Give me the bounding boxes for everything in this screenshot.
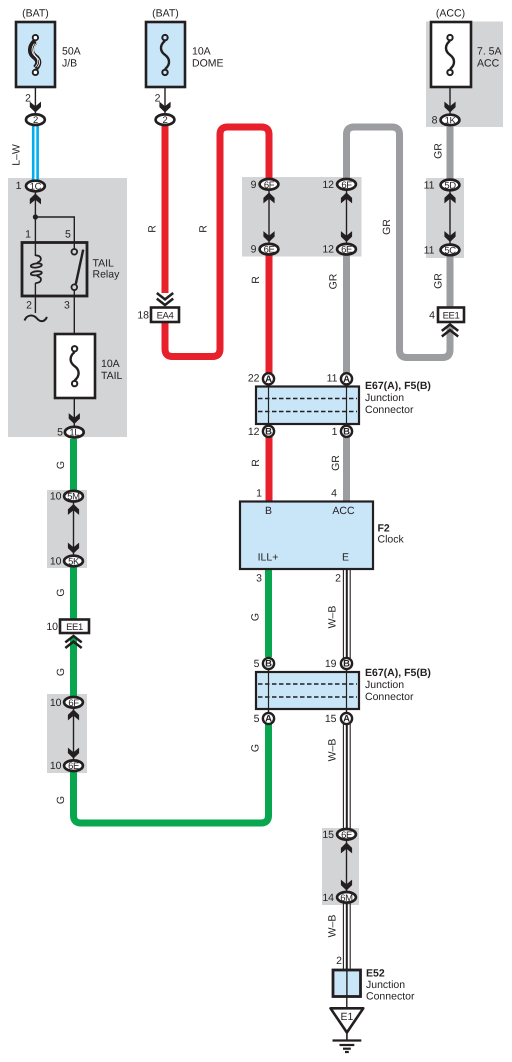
svg-text:GR: GR (433, 143, 445, 159)
svg-text:10: 10 (50, 491, 62, 503)
svg-text:ACC: ACC (332, 505, 355, 517)
svg-text:14: 14 (322, 892, 334, 904)
svg-text:1: 1 (256, 488, 262, 500)
svg-text:GR: GR (433, 273, 445, 289)
svg-text:1L: 1L (69, 428, 79, 439)
svg-text:5: 5 (254, 658, 260, 670)
svg-text:B: B (265, 659, 272, 670)
svg-text:5: 5 (57, 427, 63, 439)
svg-text:R: R (198, 225, 210, 233)
svg-text:E52: E52 (366, 968, 385, 980)
svg-text:W–B: W–B (327, 915, 339, 938)
svg-text:3: 3 (256, 572, 262, 584)
svg-text:2: 2 (335, 572, 341, 584)
svg-text:9: 9 (251, 244, 257, 256)
svg-text:GR: GR (381, 219, 393, 235)
svg-text:6M: 6M (340, 893, 353, 904)
svg-text:TAIL: TAIL (101, 370, 123, 382)
svg-text:18: 18 (137, 309, 149, 321)
svg-text:6E: 6E (68, 761, 79, 772)
svg-text:7. 5A: 7. 5A (477, 46, 502, 58)
svg-text:(BAT): (BAT) (152, 8, 179, 20)
svg-text:12: 12 (248, 426, 260, 438)
svg-text:5K: 5K (68, 557, 80, 568)
svg-text:4: 4 (331, 488, 337, 500)
svg-text:GR: GR (328, 273, 340, 289)
svg-text:1: 1 (16, 180, 22, 192)
svg-text:10: 10 (50, 556, 62, 568)
svg-text:A: A (265, 374, 272, 385)
svg-text:2: 2 (336, 955, 342, 967)
svg-text:A: A (343, 374, 350, 385)
svg-text:2: 2 (155, 93, 161, 105)
svg-text:Junction: Junction (365, 679, 404, 691)
svg-text:GR: GR (330, 455, 342, 471)
svg-text:E67(A), F5(B): E67(A), F5(B) (365, 667, 431, 679)
svg-text:B: B (265, 427, 272, 438)
svg-text:5D: 5D (444, 180, 456, 191)
svg-text:(BAT): (BAT) (22, 8, 49, 20)
svg-text:10: 10 (50, 697, 62, 709)
svg-text:10A: 10A (101, 358, 120, 370)
svg-text:1: 1 (332, 426, 338, 438)
svg-text:8: 8 (432, 115, 438, 127)
svg-text:11: 11 (327, 372, 338, 384)
svg-text:22: 22 (248, 372, 260, 384)
svg-text:R: R (250, 459, 262, 467)
svg-text:12: 12 (322, 244, 334, 256)
svg-text:Junction: Junction (366, 979, 405, 991)
svg-text:G: G (55, 668, 67, 676)
svg-text:L–W: L–W (11, 144, 23, 166)
svg-text:Connector: Connector (365, 404, 414, 416)
svg-text:6E: 6E (264, 245, 275, 256)
svg-text:5: 5 (254, 713, 260, 725)
svg-text:6E: 6E (341, 830, 352, 841)
svg-text:G: G (55, 796, 67, 804)
svg-text:2: 2 (163, 115, 168, 126)
svg-text:15: 15 (322, 829, 334, 841)
svg-text:50A: 50A (62, 46, 81, 58)
svg-text:2: 2 (33, 115, 38, 126)
svg-text:11: 11 (424, 244, 435, 256)
svg-text:6F: 6F (341, 180, 352, 191)
svg-text:2: 2 (25, 93, 31, 105)
svg-text:EA4: EA4 (157, 310, 174, 321)
svg-text:10: 10 (50, 760, 62, 772)
svg-text:J/B: J/B (62, 58, 77, 70)
svg-text:G: G (250, 744, 262, 752)
svg-text:R: R (250, 276, 262, 284)
svg-text:10A: 10A (192, 46, 211, 58)
svg-text:G: G (55, 588, 67, 596)
svg-text:19: 19 (325, 658, 337, 670)
svg-text:1: 1 (25, 229, 31, 241)
svg-text:A: A (343, 714, 350, 725)
svg-text:2: 2 (26, 300, 32, 312)
svg-text:6F: 6F (264, 180, 275, 191)
svg-text:G: G (250, 613, 262, 621)
svg-text:B: B (265, 505, 272, 517)
svg-text:Relay: Relay (93, 269, 121, 281)
svg-text:ILL+: ILL+ (258, 552, 279, 564)
svg-text:W–B: W–B (327, 739, 339, 762)
svg-text:(ACC): (ACC) (436, 8, 465, 20)
svg-text:3: 3 (64, 300, 70, 312)
svg-text:ACC: ACC (477, 58, 500, 70)
svg-text:EE1: EE1 (66, 622, 83, 633)
svg-text:6E: 6E (341, 245, 352, 256)
svg-text:10: 10 (46, 621, 58, 633)
svg-text:1K: 1K (445, 116, 457, 127)
svg-text:9: 9 (251, 179, 257, 191)
svg-text:11: 11 (424, 179, 435, 191)
svg-text:5: 5 (65, 229, 71, 241)
svg-text:A: A (265, 714, 272, 725)
svg-text:15: 15 (325, 713, 337, 725)
svg-text:Connector: Connector (365, 691, 414, 703)
svg-text:Junction: Junction (365, 392, 404, 404)
svg-text:4: 4 (429, 309, 435, 321)
svg-text:5C: 5C (444, 245, 456, 256)
svg-text:E: E (342, 552, 349, 564)
svg-text:6F: 6F (68, 698, 79, 709)
svg-text:1C: 1C (30, 182, 42, 193)
svg-text:12: 12 (322, 179, 334, 191)
svg-text:DOME: DOME (192, 58, 224, 70)
svg-text:G: G (55, 461, 67, 469)
svg-text:R: R (147, 225, 159, 233)
svg-text:B: B (343, 659, 350, 670)
svg-text:E67(A), F5(B): E67(A), F5(B) (365, 380, 431, 392)
svg-text:W–B: W–B (327, 606, 339, 629)
svg-text:B: B (343, 427, 350, 438)
svg-text:EE1: EE1 (443, 310, 460, 321)
svg-text:5M: 5M (67, 492, 80, 503)
svg-text:E1: E1 (340, 1011, 353, 1023)
svg-text:Connector: Connector (366, 991, 415, 1003)
svg-text:Clock: Clock (378, 534, 405, 546)
